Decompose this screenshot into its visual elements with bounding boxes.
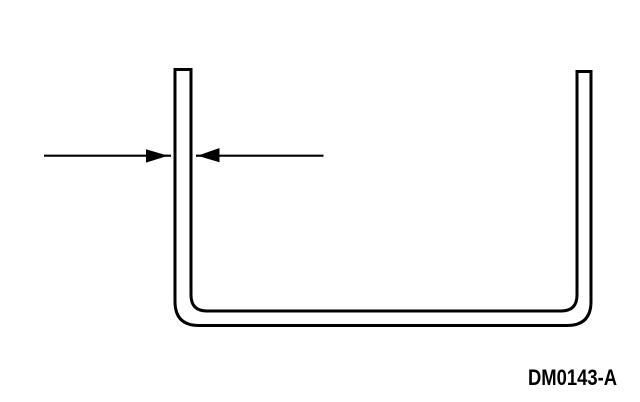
svg-text:DM0143-A: DM0143-A [528, 365, 617, 390]
